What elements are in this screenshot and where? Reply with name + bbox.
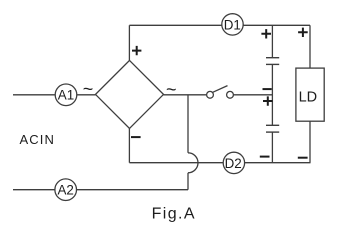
svg-text:A1: A1 xyxy=(58,88,74,103)
svg-text:~: ~ xyxy=(83,79,94,99)
svg-text:D1: D1 xyxy=(224,17,241,32)
svg-text:A2: A2 xyxy=(58,183,74,198)
svg-text:~: ~ xyxy=(166,80,177,100)
svg-text:Fig.A: Fig.A xyxy=(152,206,196,223)
svg-text:D2: D2 xyxy=(225,156,242,171)
svg-text:LD: LD xyxy=(299,90,318,106)
svg-text:ACIN: ACIN xyxy=(20,132,55,147)
